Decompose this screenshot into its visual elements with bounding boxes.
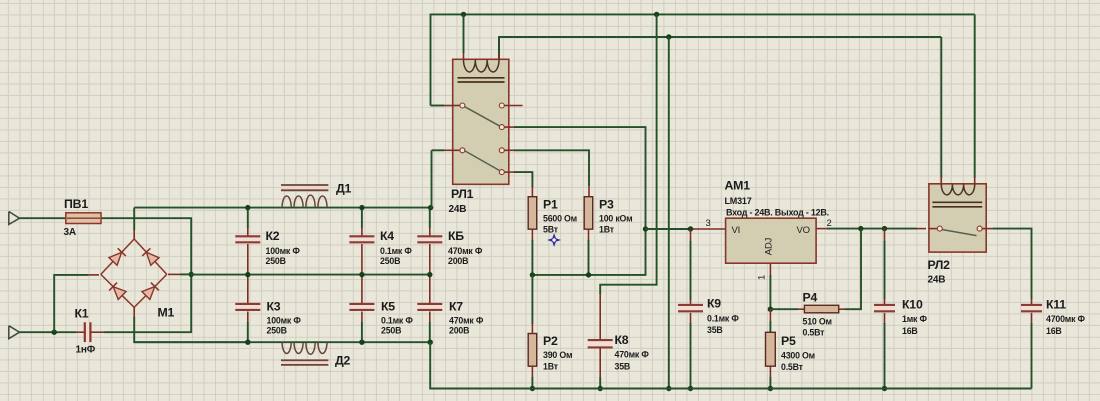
label AM1 part LM317 xyxy=(725,196,752,206)
junction dot P5 ground xyxy=(768,386,773,391)
label К3 xyxy=(267,300,281,314)
svg-text:1нФ: 1нФ xyxy=(76,345,96,356)
relay RL1 body xyxy=(453,59,509,184)
svg-text:P3: P3 xyxy=(599,198,614,212)
svg-text:0.1мк Ф: 0.1мк Ф xyxy=(380,246,412,256)
svg-text:P1: P1 xyxy=(543,198,558,212)
label K8 xyxy=(615,333,629,347)
junction dot P3 bottom xyxy=(586,272,591,277)
svg-text:0.5Вт: 0.5Вт xyxy=(781,362,804,372)
svg-text:VO: VO xyxy=(797,225,810,236)
relay RL1 pin common1 xyxy=(431,103,465,108)
svg-text:0.1мк Ф: 0.1мк Ф xyxy=(707,314,739,324)
capacitors К2/К3 column xyxy=(235,208,260,343)
wire J1 to fuse xyxy=(20,217,67,219)
pin number 2 xyxy=(827,218,832,229)
label PV1 xyxy=(64,197,88,211)
label К2 value xyxy=(266,246,301,256)
label P3 power xyxy=(599,225,615,235)
resistor P2 xyxy=(528,334,537,367)
label M1 xyxy=(158,306,175,320)
wire P5 top lead xyxy=(769,309,771,332)
relay RL2 coil wire right xyxy=(974,14,976,185)
junction dot VO / P4 riser xyxy=(858,226,863,231)
wire rail B ground drop xyxy=(668,37,670,389)
junction dot VI / K9 xyxy=(688,226,693,231)
svg-text:250В: 250В xyxy=(266,256,286,266)
label RL2 xyxy=(928,258,951,272)
relay RL2 body xyxy=(929,184,986,252)
wire DC- down to ground rail xyxy=(430,342,533,388)
wire ground rail xyxy=(430,388,1031,390)
fuse PV1 body xyxy=(66,213,101,224)
capacitor K11 xyxy=(1021,305,1042,389)
wire K1 to right riser xyxy=(92,274,192,333)
label K1 value 1nF xyxy=(76,345,96,356)
svg-text:5600 Ом: 5600 Ом xyxy=(543,214,577,224)
label К5 value xyxy=(381,316,413,326)
label K8 value xyxy=(615,350,650,360)
svg-text:1мк Ф: 1мк Ф xyxy=(902,314,927,324)
pin number 1 xyxy=(757,275,768,280)
svg-text:К7: К7 xyxy=(449,300,463,314)
label К4 voltage xyxy=(380,256,400,266)
svg-text:Д1: Д1 xyxy=(336,182,352,196)
junction dot mid rail K4/K5 xyxy=(359,272,364,277)
relay RL2 switch arm xyxy=(943,230,977,236)
svg-text:РЛ2: РЛ2 xyxy=(928,258,951,272)
label K1 xyxy=(75,307,89,321)
svg-text:К9: К9 xyxy=(707,297,721,311)
label K10 xyxy=(902,298,923,312)
wire DC- rail y=342.2 xyxy=(134,341,430,343)
relay RL2 pin right wire to K11 xyxy=(977,226,1031,304)
wire P1 bottom lead xyxy=(531,229,533,275)
label КБ voltage xyxy=(448,256,468,266)
capacitor K8 xyxy=(588,293,613,389)
wire P3 bottom lead xyxy=(588,229,590,275)
relay RL1 coil xyxy=(458,60,505,82)
svg-text:200В: 200В xyxy=(448,256,468,266)
label P1 power xyxy=(543,225,559,235)
svg-text:100мк Ф: 100мк Ф xyxy=(266,246,301,256)
input terminal J2 (bottom) xyxy=(9,326,20,339)
svg-text:4300 Ом: 4300 Ом xyxy=(781,351,815,361)
relay RL1 pin NC2 wire to P3 xyxy=(499,148,589,197)
resistor P3 xyxy=(584,197,593,230)
svg-text:4700мк Ф: 4700мк Ф xyxy=(1046,314,1086,324)
svg-text:470мк Ф: 470мк Ф xyxy=(615,350,650,360)
label K10 value xyxy=(902,314,927,324)
relay RL1 coil wire left xyxy=(463,14,465,60)
label D1 xyxy=(336,182,352,196)
bridge rectifier M1 xyxy=(101,239,167,307)
junction dot P1 bottom xyxy=(530,272,535,277)
relay RL1 pin common2 wire xyxy=(432,148,465,209)
wire DC+ rail y=207.6 xyxy=(134,207,430,209)
svg-text:КБ: КБ xyxy=(448,229,464,243)
label PV1 value 3A xyxy=(64,227,76,238)
resistor P1 xyxy=(528,197,537,230)
label P4 value xyxy=(803,317,832,327)
svg-text:P5: P5 xyxy=(781,334,796,348)
wire bridge bottom vertex drop xyxy=(134,307,248,342)
label P1 xyxy=(543,198,558,212)
relay RL1 switch arm 2 xyxy=(465,151,499,171)
label D2 xyxy=(335,354,351,368)
wire bridge right vertex stub xyxy=(168,273,191,275)
svg-text:К8: К8 xyxy=(615,333,629,347)
svg-text:Д2: Д2 xyxy=(335,354,351,368)
wire top rail A xyxy=(431,14,975,105)
svg-text:К2: К2 xyxy=(266,229,280,243)
svg-text:16В: 16В xyxy=(902,326,918,336)
wire bridge top vertex riser xyxy=(133,208,135,239)
label К4 value xyxy=(380,246,412,256)
label K9 xyxy=(707,297,721,311)
label К7 xyxy=(449,300,463,314)
capacitor K9 xyxy=(678,229,703,389)
label P5 power xyxy=(781,362,804,372)
svg-text:К11: К11 xyxy=(1046,298,1066,312)
label K8 voltage xyxy=(615,362,631,372)
svg-text:250В: 250В xyxy=(267,326,287,336)
wire VO to RL2 xyxy=(816,228,926,230)
svg-text:35В: 35В xyxy=(707,325,723,335)
junction dot rail A / K8 riser xyxy=(654,12,659,17)
pin label VI xyxy=(732,225,741,236)
svg-text:5Вт: 5Вт xyxy=(543,225,559,235)
svg-text:LM317: LM317 xyxy=(725,196,752,206)
label К2 xyxy=(266,229,280,243)
svg-text:К1: К1 xyxy=(75,307,89,321)
relay RL1 switch arm 1 xyxy=(465,107,499,126)
label P5 value xyxy=(781,351,815,361)
label P1 value xyxy=(543,214,577,224)
wire P4 to VO xyxy=(839,229,861,310)
wire P2 top lead xyxy=(531,275,533,334)
svg-text:ADJ: ADJ xyxy=(764,237,775,255)
svg-text:РЛ1: РЛ1 xyxy=(451,187,474,201)
svg-text:250В: 250В xyxy=(381,326,401,336)
relay RL2 coil xyxy=(932,184,982,206)
wire left AC riser to bridge left vertex xyxy=(54,275,99,332)
capacitors КБ/К7 column xyxy=(417,208,442,343)
svg-text:200В: 200В xyxy=(449,326,469,336)
junction dot J2/K1 node xyxy=(52,330,57,335)
svg-text:470мк Ф: 470мк Ф xyxy=(449,316,484,326)
junction dot DC- K3 xyxy=(245,340,250,345)
capacitor K1 xyxy=(84,322,91,342)
relay RL1 pin NO1 stub xyxy=(499,103,522,108)
label КБ value xyxy=(448,246,483,256)
label К5 xyxy=(381,300,395,314)
svg-text:2: 2 xyxy=(827,218,832,229)
label RL1 voltage xyxy=(449,204,467,215)
svg-text:К4: К4 xyxy=(380,229,394,243)
label P2 xyxy=(543,334,558,348)
capacitor K10 xyxy=(874,229,895,389)
label AM1 note xyxy=(726,208,829,218)
junction dot rail B ground xyxy=(666,386,671,391)
input terminal J1 (top) xyxy=(9,212,20,225)
wire ADJ to P4 xyxy=(770,308,804,310)
svg-text:P4: P4 xyxy=(803,291,818,305)
inductor D1 xyxy=(281,185,328,207)
relay RL1 pin NC1 wire to VI node xyxy=(499,125,645,229)
pin label ADJ xyxy=(764,237,775,255)
junction dot VI node xyxy=(643,226,648,231)
label K9 voltage xyxy=(707,325,723,335)
junction dot DC- K7 corner xyxy=(428,340,433,345)
relay RL1 coil wire right xyxy=(498,37,500,61)
label K11 voltage xyxy=(1046,326,1062,336)
regulator AM1 body xyxy=(726,218,817,263)
resistor P5 xyxy=(766,332,776,366)
junction dot K8 ground xyxy=(598,386,603,391)
svg-text:100мк Ф: 100мк Ф xyxy=(267,316,302,326)
label K9 value xyxy=(707,314,739,324)
label P2 power xyxy=(543,362,559,372)
relay RL2 coil wire left xyxy=(940,37,942,185)
relay RL1 pin NO2 wire to P1 xyxy=(499,170,532,197)
svg-text:К5: К5 xyxy=(381,300,395,314)
wire fuse drop to bridge right node xyxy=(190,218,192,274)
junction dot D1 wire / K6 / relay xyxy=(428,205,433,210)
svg-text:К3: К3 xyxy=(267,300,281,314)
svg-text:P2: P2 xyxy=(543,334,558,348)
wire fuse to bridge drop elbow xyxy=(100,217,192,219)
svg-text:1Вт: 1Вт xyxy=(599,225,615,235)
svg-text:24В: 24В xyxy=(928,275,946,286)
svg-text:М1: М1 xyxy=(158,306,175,320)
junction dot ADJ node xyxy=(768,307,773,312)
pin number 3 xyxy=(706,218,711,229)
label AM1 xyxy=(725,179,751,193)
junction dot D1 wire / K2 xyxy=(245,205,250,210)
label K11 xyxy=(1046,298,1066,312)
svg-text:16В: 16В xyxy=(1046,326,1062,336)
svg-text:510 Ом: 510 Ом xyxy=(803,317,832,327)
wire P5 bottom lead xyxy=(769,366,771,388)
wire ADJ drop xyxy=(769,263,771,309)
label P3 value xyxy=(599,214,632,224)
label K10 voltage xyxy=(902,326,918,336)
junction dot rail A / relay coil xyxy=(461,12,466,17)
svg-text:Вход - 24В. Выход - 12В.: Вход - 24В. Выход - 12В. xyxy=(726,208,829,218)
label К3 value xyxy=(267,316,302,326)
label К7 value xyxy=(449,316,484,326)
wire J2 to K1 xyxy=(20,331,85,333)
junction dot bridge right node xyxy=(189,272,194,277)
svg-text:0.1мк Ф: 0.1мк Ф xyxy=(381,316,413,326)
svg-text:24В: 24В xyxy=(449,204,467,215)
svg-text:100 кОм: 100 кОм xyxy=(599,214,632,224)
relay RL2 pin left xyxy=(929,226,942,231)
label K11 value xyxy=(1046,314,1086,324)
wire P2 bottom lead xyxy=(531,366,533,388)
svg-text:470мк Ф: 470мк Ф xyxy=(448,246,483,256)
svg-text:390 Ом: 390 Ом xyxy=(543,350,572,360)
svg-text:AM1: AM1 xyxy=(725,179,751,193)
label P2 value xyxy=(543,350,572,360)
junction dot mid rail K2/K3 xyxy=(245,272,250,277)
inductor D2 xyxy=(281,343,328,365)
junction dot mid rail K6/K7 xyxy=(427,272,432,277)
svg-text:0.5Вт: 0.5Вт xyxy=(803,328,826,338)
svg-text:VI: VI xyxy=(732,225,741,236)
label К3 voltage xyxy=(267,326,287,336)
svg-text:3А: 3А xyxy=(64,227,76,238)
wire K8 riser to rail A xyxy=(600,14,656,294)
svg-text:35В: 35В xyxy=(615,362,631,372)
label P3 xyxy=(599,198,614,212)
label RL2 voltage xyxy=(928,275,946,286)
capacitors К4/К5 column xyxy=(349,208,374,343)
svg-text:К10: К10 xyxy=(902,298,923,312)
pin label VO xyxy=(797,225,810,236)
junction dot K9 ground xyxy=(688,386,693,391)
origin marker (blue) xyxy=(547,233,561,247)
svg-text:1: 1 xyxy=(757,275,768,280)
wire VI node to regulator xyxy=(646,228,726,230)
svg-text:3: 3 xyxy=(706,218,711,229)
label КБ xyxy=(448,229,464,243)
wire P1/P3 bottoms to VI riser xyxy=(532,229,645,275)
wire rail B xyxy=(499,37,941,62)
junction dot D1 wire / K4 xyxy=(359,205,364,210)
label К5 voltage xyxy=(381,326,401,336)
label К7 voltage xyxy=(449,326,469,336)
label К2 voltage xyxy=(266,256,286,266)
junction dot K10 ground xyxy=(882,386,887,391)
svg-text:ПВ1: ПВ1 xyxy=(64,197,88,211)
junction dot VO / K10 xyxy=(882,226,887,231)
label К4 xyxy=(380,229,394,243)
junction dot P2 ground xyxy=(530,386,535,391)
wire mid rail y=274.6 xyxy=(191,274,430,276)
resistor P4 xyxy=(804,305,838,313)
label P4 power xyxy=(803,328,826,338)
label RL1 xyxy=(451,187,474,201)
junction dot rail B / ground drop xyxy=(666,34,671,39)
label P5 xyxy=(781,334,796,348)
label P4 xyxy=(803,291,818,305)
svg-text:250В: 250В xyxy=(380,256,400,266)
svg-text:1Вт: 1Вт xyxy=(543,362,559,372)
junction dot DC- K5 xyxy=(359,340,364,345)
